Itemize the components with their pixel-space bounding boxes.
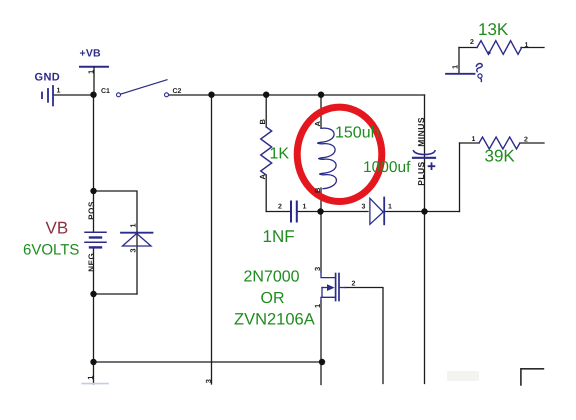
wire 13K vertical riser	[458, 48, 460, 74]
svg-text:3: 3	[204, 379, 213, 383]
wire C3 right plate to node	[298, 211, 321, 213]
faint watermark bottom right	[447, 371, 479, 381]
diode D2 (output)	[370, 198, 384, 225]
svg-text:3: 3	[313, 267, 322, 271]
node junction dot rail2 top	[208, 92, 214, 98]
switch SW2 (vertical, by 13K) wire	[446, 73, 475, 75]
svg-text:1000uf: 1000uf	[363, 159, 411, 176]
svg-text:OR: OR	[261, 290, 285, 307]
svg-text:2: 2	[470, 39, 474, 46]
svg-text:6VOLTS: 6VOLTS	[23, 242, 79, 259]
svg-text:2: 2	[278, 204, 282, 211]
svg-text:2: 2	[352, 281, 356, 288]
node junction dot inductor top	[318, 92, 324, 98]
wire MOSFET drain	[345, 288, 383, 384]
wire second rail vertical	[211, 95, 213, 384]
switch SW2 terminal circle	[478, 74, 482, 78]
wire corner bottom right	[521, 369, 544, 385]
switch SW2 blade squiggle	[476, 64, 482, 72]
wire battery diode branch top	[94, 191, 138, 232]
node junction dot battery top	[90, 188, 96, 194]
switch SW2 tail	[480, 79, 483, 82]
wire +VB bar to node	[93, 67, 95, 94]
wire bottom rail	[94, 361, 323, 363]
wire 1K bottom to corner	[265, 175, 267, 212]
svg-text:B: B	[313, 187, 322, 193]
svg-text:3: 3	[129, 248, 138, 252]
svg-text:A: A	[258, 174, 267, 180]
svg-text:13K: 13K	[478, 20, 509, 39]
wire inductor bottom to node	[320, 188, 322, 272]
transistor Q1 body arrow	[327, 284, 335, 291]
node junction dot cap bottom	[421, 208, 427, 214]
svg-text:ZVN2106A: ZVN2106A	[234, 311, 315, 329]
svg-text:2: 2	[524, 137, 528, 144]
switch SW2 upper terminal dot	[487, 51, 490, 54]
resistor R2 13K zigzag	[477, 41, 522, 55]
switch SW1 circle C1	[117, 93, 121, 97]
wire left rail lower	[93, 247, 95, 384]
svg-text:1: 1	[57, 88, 61, 95]
wire faint stub bottom left	[82, 383, 108, 385]
resistor R1 1K zigzag	[261, 127, 272, 175]
wire MOSFET source down	[320, 301, 322, 385]
wire node to diode D2	[321, 211, 369, 213]
capacitor C2 1000uf curved plate	[414, 151, 436, 155]
battery VB plates	[85, 232, 106, 247]
svg-text:GND: GND	[35, 72, 61, 84]
svg-text:1: 1	[388, 204, 392, 211]
capacitor C3 1NF plates	[291, 202, 297, 222]
svg-text:3: 3	[362, 204, 366, 211]
svg-text:POS: POS	[87, 201, 96, 220]
svg-text:NEG: NEG	[87, 253, 96, 272]
svg-text:VB: VB	[46, 219, 69, 238]
svg-text:1: 1	[313, 304, 322, 308]
wire 1K branch top	[265, 95, 267, 127]
svg-text:1: 1	[472, 136, 476, 143]
svg-text:A: A	[313, 121, 322, 127]
svg-text:1: 1	[303, 204, 307, 211]
node junction dot bottom rail left	[90, 359, 96, 365]
wire diode D2 to cap node	[385, 211, 460, 213]
node junction dot mid rail	[317, 208, 323, 214]
switch SW1 circle C2	[165, 93, 169, 97]
red highlight circle	[297, 107, 382, 201]
node junction dot 1K top	[263, 92, 269, 98]
capacitor C2 plus sign	[429, 163, 435, 169]
wire 39K vertical riser	[459, 143, 461, 212]
wire battery diode branch bottom	[94, 293, 138, 295]
svg-text:MINUS: MINUS	[416, 117, 426, 147]
capacitor C2 1000uf straight plate	[413, 157, 435, 159]
wire left rail upper	[93, 95, 95, 232]
svg-text:+VB: +VB	[80, 48, 102, 60]
node junction dot V+	[90, 92, 96, 98]
wire battery diode branch middle	[136, 232, 138, 294]
transistor Q1 MOSFET	[321, 273, 346, 302]
svg-text:1: 1	[451, 65, 460, 69]
svg-text:B: B	[258, 119, 267, 125]
svg-text:1: 1	[87, 70, 96, 74]
inductor L1 150uh coil	[318, 128, 337, 189]
svg-text:1: 1	[525, 42, 529, 49]
wire 39K left lead	[460, 142, 480, 144]
wire inductor branch top	[320, 95, 322, 128]
svg-text:1NF: 1NF	[263, 227, 295, 246]
wire corner to C3 left plate	[266, 211, 290, 213]
wire 13K right lead	[521, 47, 544, 49]
svg-text:1: 1	[86, 376, 95, 380]
power symbol +VB bar	[80, 66, 108, 68]
svg-text:1: 1	[129, 223, 138, 227]
resistor R3 39K zigzag	[479, 137, 520, 149]
wire GND to node V+	[54, 94, 94, 96]
ground symbol	[42, 86, 53, 105]
switch SW1 blade	[121, 80, 167, 94]
wire top rail corner down to C2 cap	[424, 95, 426, 384]
wire switch C2 to top rail	[169, 94, 425, 96]
diode D1 (across battery)	[121, 233, 153, 246]
node junction dot bottom rail right	[319, 359, 325, 365]
svg-text:PLUS: PLUS	[416, 161, 426, 185]
svg-text:1K: 1K	[270, 146, 290, 163]
svg-text:39K: 39K	[485, 147, 516, 166]
node junction dot battery bottom	[90, 291, 96, 297]
svg-text:C2: C2	[173, 88, 182, 95]
svg-text:C1: C1	[101, 88, 110, 95]
svg-text:150uh: 150uh	[335, 125, 380, 142]
wire 13K left lead	[459, 47, 477, 49]
wire 39K right lead	[520, 142, 544, 144]
svg-text:2N7000: 2N7000	[244, 269, 300, 286]
